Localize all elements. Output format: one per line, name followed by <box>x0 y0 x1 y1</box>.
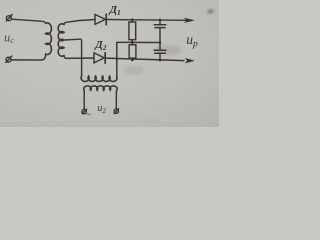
wire: secondary center tap to winding-A left end <box>64 39 82 76</box>
wire: top-left terminal to primary top <box>11 19 45 23</box>
resistor R1 <box>131 20 133 22</box>
faint bleed-through smudges <box>154 45 182 55</box>
wire: winding B right end down <box>115 90 117 109</box>
transformer secondary winding <box>58 24 64 56</box>
terminal input bottom-left <box>6 57 11 62</box>
paper background <box>0 0 219 127</box>
arrow bottom output <box>186 59 194 63</box>
transformer primary winding <box>46 23 52 55</box>
terminal input top-left <box>6 16 11 21</box>
junction: bottom rail / R2 bottom <box>131 59 134 62</box>
wire: secondary top to diode D1 anode (top rail left) <box>64 20 95 25</box>
wire: bottom rail D2 cathode to output arrow <box>105 58 184 61</box>
diode D1 <box>95 14 105 24</box>
junction: top rail / C1 top <box>159 19 162 22</box>
junction: top rail / R1 top <box>131 18 134 21</box>
junction: bottom rail / winding-A right end <box>116 58 118 60</box>
diode D2 <box>94 53 104 63</box>
svg-text:~: ~ <box>86 110 91 120</box>
junction: mid node / C1-C2 <box>159 41 161 43</box>
terminal heater right <box>114 109 118 113</box>
wire: primary bottom to bottom-left terminal <box>11 54 46 60</box>
resistor R2 <box>131 42 133 45</box>
wire: secondary bottom to diode D2 anode <box>64 56 94 59</box>
wire: vertical mid-node / winding-A right end <box>116 42 118 76</box>
wire: top rail D1 cathode to output arrow <box>106 19 186 22</box>
junction: bottom rail / C2 bottom <box>159 59 162 62</box>
wire: winding B left end down <box>83 90 85 109</box>
capacitor C1 <box>159 20 161 25</box>
arrow top output <box>185 18 194 22</box>
top-right dirt speck <box>208 10 213 13</box>
winding A (transformer bottom winding) <box>81 76 117 81</box>
wire: mid node horizontal (R junction to C junction) <box>117 41 160 43</box>
capacitor C2 <box>159 43 161 51</box>
junction: mid node / R1-R2 <box>131 41 134 44</box>
winding B (heater winding) <box>84 86 117 90</box>
terminal heater left <box>82 109 86 113</box>
